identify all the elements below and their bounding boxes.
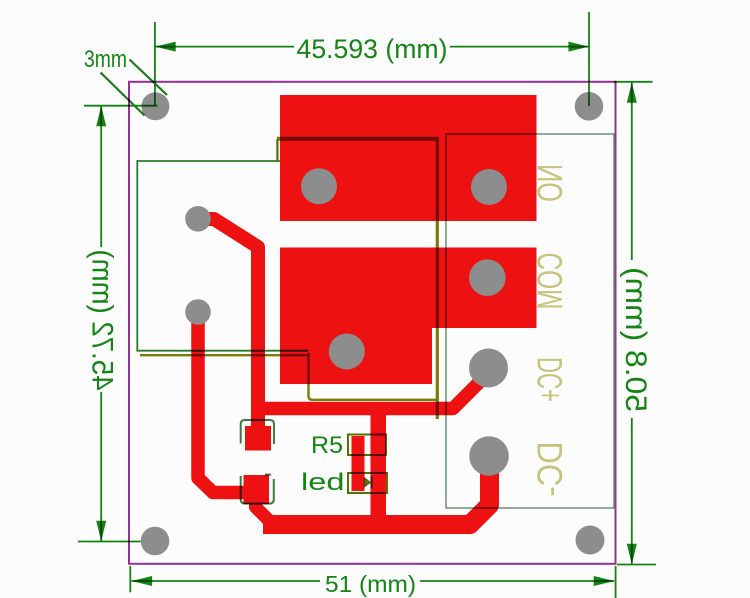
svg-text:50.8 (mm): 50.8 (mm) xyxy=(619,267,652,412)
svg-text:45.72 (mm): 45.72 (mm) xyxy=(85,250,118,391)
svg-text:3mm: 3mm xyxy=(84,46,127,73)
svg-text:DC-: DC- xyxy=(530,442,570,497)
svg-text:led: led xyxy=(301,469,345,496)
svg-text:NO: NO xyxy=(530,164,570,202)
svg-text:DC+: DC+ xyxy=(530,357,570,402)
svg-text:51 (mm): 51 (mm) xyxy=(325,571,416,597)
svg-text:R5: R5 xyxy=(311,432,343,459)
svg-text:45.593 (mm): 45.593 (mm) xyxy=(297,34,448,64)
svg-text:COM: COM xyxy=(530,253,570,310)
